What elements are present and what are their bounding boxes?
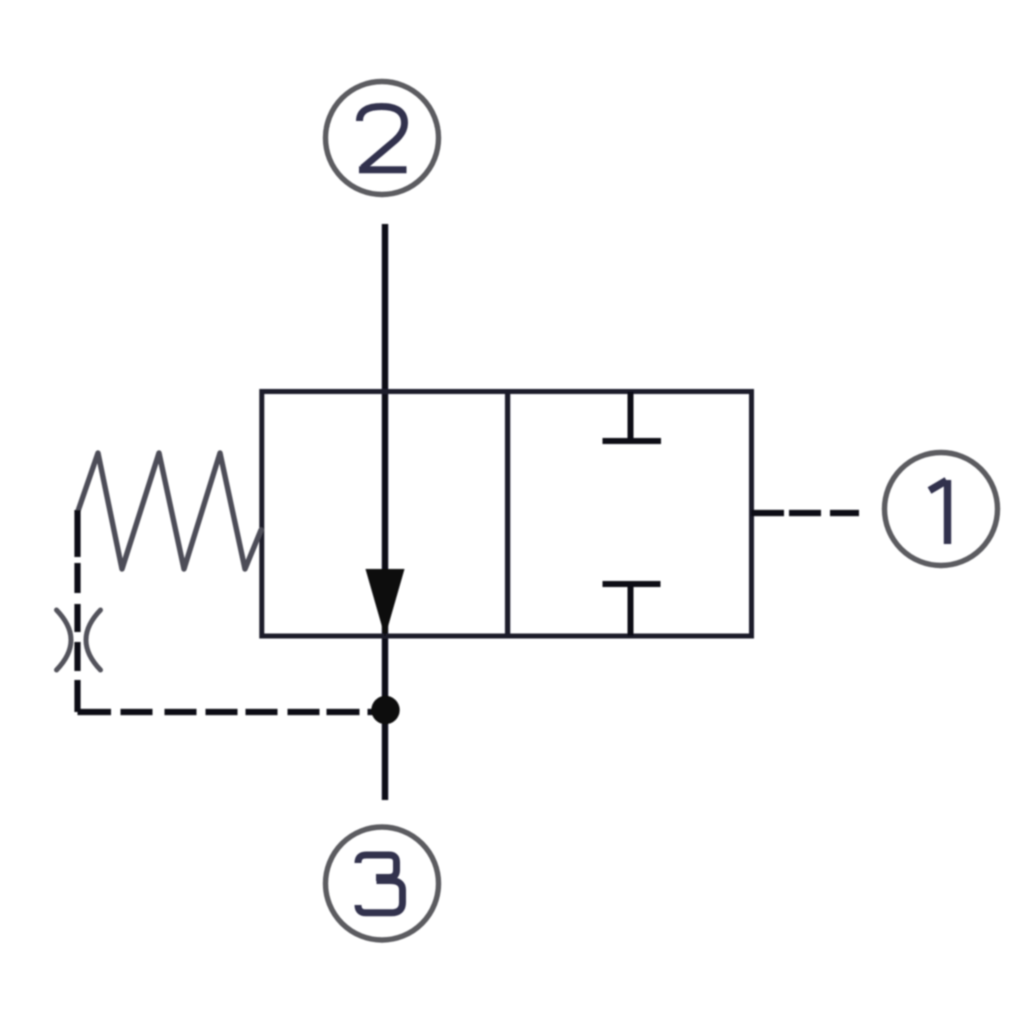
- pilot dashed line horizontal to junction: [78, 709, 374, 715]
- wire from port 2 through valve to port 3: [382, 224, 388, 800]
- flow arrow (open position): [366, 569, 405, 637]
- spring: [78, 453, 261, 569]
- pilot dashed line to port 1: [751, 510, 859, 516]
- blocked seat symbol bottom (closed position): [603, 584, 661, 636]
- port circle 1: [885, 453, 998, 566]
- blocked seat symbol top (closed position): [603, 392, 662, 442]
- junction node: [371, 696, 399, 724]
- port circle 2: [326, 82, 439, 195]
- port label 2: [359, 107, 407, 170]
- orifice (restriction) symbol: [57, 610, 101, 670]
- valve position divider: [505, 392, 510, 637]
- valve body envelope: [262, 392, 752, 637]
- port label 3: [358, 855, 403, 913]
- pilot dashed line vertical (spring side): [74, 510, 80, 712]
- port label 1: [930, 480, 948, 544]
- port circle 3: [326, 827, 439, 940]
